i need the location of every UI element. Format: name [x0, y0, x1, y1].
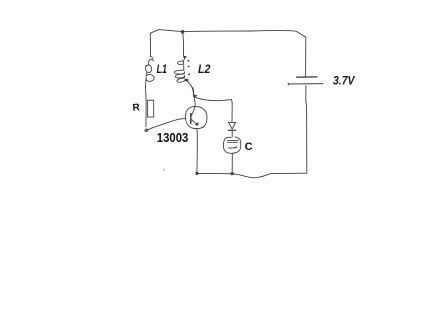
- node junction dot bottom middle: [231, 172, 234, 175]
- wire top horizontal right segment: [183, 30, 305, 36]
- wire diode to capacitor: [231, 131, 233, 137]
- node R bottom lead scribble: [145, 129, 148, 131]
- transistor Q1 emitter stroke: [191, 119, 196, 123]
- capacitor C outline: [223, 137, 240, 153]
- wire collector junction to diode branch: [196, 98, 232, 123]
- node junction dot top wire: [181, 30, 185, 34]
- wire battery bottom lead: [306, 85, 307, 173]
- transistor Q1 emitter arrowhead: [195, 122, 199, 126]
- svg-text:C: C: [245, 141, 253, 153]
- transistor Q1 collector stroke: [191, 106, 195, 116]
- svg-text:L2: L2: [198, 62, 211, 76]
- node L1 loop dot: [146, 65, 148, 67]
- svg-text:13003: 13003: [157, 131, 189, 145]
- wire top-left vertical (L1 top lead): [149, 33, 151, 56]
- node junction dot bottom left: [195, 172, 198, 175]
- battery BT1 bottom plate: [289, 83, 323, 85]
- wire collector junction to transistor top: [193, 98, 196, 106]
- node collector junction arrowhead: [193, 95, 198, 99]
- inductor L2: [174, 59, 194, 96]
- diode D1 triangle: [228, 122, 235, 128]
- transistor Q1 circle: [185, 106, 206, 128]
- wire bottom horizontal: [197, 173, 307, 178]
- capacitor C bottom plate arrowhead: [234, 146, 237, 149]
- wire capacitor to bottom: [231, 153, 233, 173]
- transistor Q1 base bar: [190, 113, 192, 124]
- resistor R: [148, 100, 154, 117]
- wire L2 top lead: [182, 32, 185, 55]
- capacitor C top plate: [227, 139, 239, 142]
- wire emitter down: [196, 128, 198, 173]
- node L2 top arrowhead: [183, 56, 187, 60]
- battery BT1 top plate: [296, 76, 317, 78]
- diode D1 cathode bar: [228, 129, 237, 131]
- node L2 winding end blob: [185, 79, 188, 82]
- node stray speck: [163, 169, 166, 171]
- wire battery top lead: [304, 36, 306, 77]
- node L1 hook dot: [152, 60, 154, 61]
- capacitor C top plate lower stroke: [227, 141, 238, 143]
- wire L1 bottom lead: [145, 87, 148, 127]
- battery BT1 bottom plate left tick: [287, 83, 290, 86]
- wire base (from R lead to transistor): [147, 119, 186, 131]
- wire top horizontal left segment: [150, 30, 182, 34]
- capacitor C bottom plate: [228, 146, 235, 149]
- svg-text:L1: L1: [157, 62, 168, 76]
- node L2 core dots: [187, 60, 190, 75]
- wire L2 bottom to collector junction: [193, 88, 194, 97]
- inductor L1: [146, 57, 155, 88]
- svg-text:3.7V: 3.7V: [333, 73, 355, 87]
